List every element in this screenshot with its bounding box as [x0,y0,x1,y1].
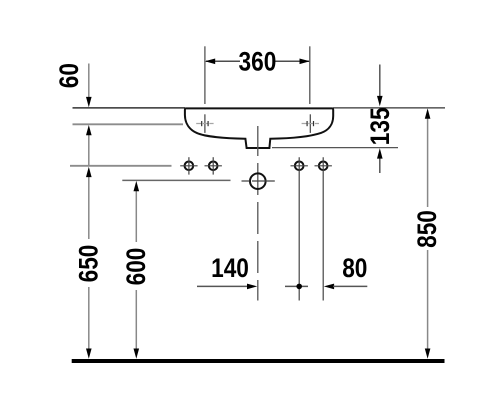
svg-text:140: 140 [211,253,249,283]
svg-text:850: 850 [412,210,442,248]
svg-text:360: 360 [238,47,276,77]
svg-text:80: 80 [342,253,367,283]
svg-text:135: 135 [365,107,395,145]
svg-text:600: 600 [121,248,151,286]
svg-text:60: 60 [54,63,84,88]
svg-text:650: 650 [74,245,104,283]
